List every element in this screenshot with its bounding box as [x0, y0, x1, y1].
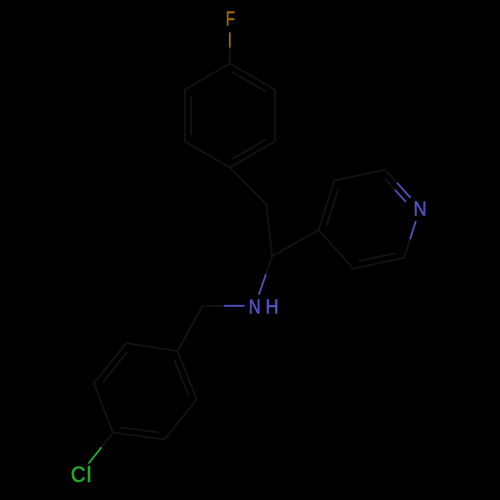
ring2 double C12=C13 — [121, 427, 158, 432]
svg-text:N: N — [414, 198, 427, 221]
pyridine double C16=C17 — [327, 189, 338, 225]
ring2 edge C15-C10 — [126, 343, 177, 351]
ring2 edge C10-C11 — [178, 351, 197, 399]
pyridine double C19=C20 — [359, 253, 396, 261]
ring1 edge C6-C1 — [185, 64, 230, 90]
pyridine edge C16-C17 — [319, 181, 335, 230]
bond C13-Cl — [101, 433, 113, 448]
pyridine edge C20-C16 — [319, 230, 354, 269]
ring1 edge C1-C2 — [230, 64, 275, 90]
ring2 double C10=C11 — [174, 360, 188, 395]
bond N-C9 (CH2) — [223, 305, 244, 307]
ring1 edge C4-C5 — [185, 142, 230, 168]
ring2 edge C13-C14 — [94, 384, 113, 433]
bond C9-C10 — [178, 306, 203, 351]
bond C7-C8 (CH) — [266, 205, 272, 257]
bond C4-C7 (CH2) — [230, 168, 266, 205]
ring1 double C5=C6 — [190, 97, 192, 134]
ring1 edge C3-C4 — [230, 142, 275, 168]
ring2 double C14=C15 — [103, 353, 126, 382]
ring1 edge C5-C6 — [184, 90, 186, 142]
svg-text:N: N — [249, 295, 261, 318]
ring2 edge C14-C15 — [94, 343, 126, 384]
svg-text:C: C — [71, 462, 86, 487]
ring2 edge C12-C13 — [113, 433, 165, 440]
pyridine double C18=N — [386, 179, 396, 190]
pyridine edge C17-C18 — [334, 170, 385, 181]
pyridine edge N-C19 — [410, 222, 416, 240]
svg-text:F: F — [226, 8, 235, 31]
svg-text:l: l — [87, 462, 92, 487]
pyridine edge C18-N — [385, 170, 397, 184]
ring1 double C1=C2 — [233, 73, 265, 92]
bond C8-C16 (to pyridine) — [272, 230, 318, 256]
ring1 double C3=C4 — [233, 140, 265, 159]
pyridine edge C19-C20 — [353, 258, 404, 269]
bond F-C1 (C-F) — [229, 33, 231, 48]
bond C8-N amine — [266, 256, 273, 275]
ring1 edge C2-C3 — [274, 90, 276, 142]
ring2 edge C11-C12 — [165, 399, 197, 439]
svg-text:H: H — [265, 295, 278, 318]
